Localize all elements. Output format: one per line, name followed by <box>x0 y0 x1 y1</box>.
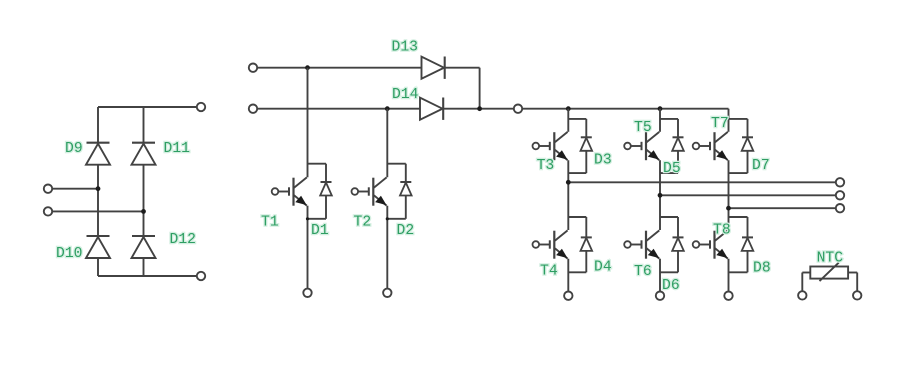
svg-text:D7: D7 <box>752 158 770 174</box>
svg-text:D12: D12 <box>170 232 196 248</box>
svg-text:D13: D13 <box>392 40 418 56</box>
svg-text:D6: D6 <box>662 278 680 294</box>
svg-text:NTC: NTC <box>817 251 844 267</box>
svg-text:D11: D11 <box>164 141 191 157</box>
svg-text:D9: D9 <box>65 141 83 157</box>
svg-text:T7: T7 <box>711 116 729 132</box>
svg-text:T8: T8 <box>713 223 731 239</box>
svg-text:D8: D8 <box>753 261 771 277</box>
svg-text:D5: D5 <box>663 161 681 177</box>
svg-text:D10: D10 <box>56 246 82 262</box>
svg-text:T1: T1 <box>261 215 279 231</box>
svg-text:D3: D3 <box>594 153 612 169</box>
svg-text:T2: T2 <box>354 215 372 231</box>
svg-text:T4: T4 <box>540 264 558 280</box>
svg-text:D14: D14 <box>392 87 419 103</box>
svg-text:D1: D1 <box>311 223 329 239</box>
svg-text:T6: T6 <box>634 264 652 280</box>
svg-text:T3: T3 <box>537 158 555 174</box>
svg-text:D4: D4 <box>594 260 612 276</box>
svg-text:D2: D2 <box>397 223 415 239</box>
svg-text:T5: T5 <box>634 120 652 136</box>
